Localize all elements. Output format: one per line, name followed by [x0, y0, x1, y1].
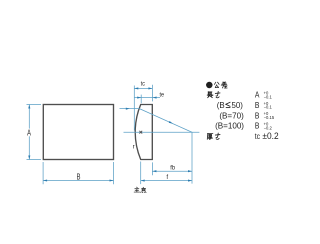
- svg-text:(B=100): (B=100): [215, 120, 244, 130]
- svg-text:−0.1: −0.1: [264, 94, 273, 99]
- svg-text:tc: tc: [255, 131, 260, 141]
- svg-text:±0.2: ±0.2: [262, 131, 278, 141]
- svg-text:A: A: [255, 90, 260, 100]
- svg-text:(B=70): (B=70): [219, 110, 244, 120]
- svg-text:B: B: [255, 121, 260, 131]
- svg-text:−0.1: −0.1: [264, 105, 273, 110]
- svg-text:f: f: [166, 174, 168, 181]
- svg-text:50): 50): [232, 101, 244, 110]
- svg-text:A: A: [27, 130, 31, 138]
- svg-text:B: B: [255, 111, 260, 121]
- svg-text:tc: tc: [141, 81, 145, 87]
- svg-text:−0.15: −0.15: [264, 115, 275, 120]
- svg-text:−0.2: −0.2: [264, 125, 273, 130]
- svg-text:B: B: [77, 174, 81, 182]
- svg-text:B: B: [255, 100, 260, 110]
- svg-text:fb: fb: [170, 165, 175, 171]
- svg-text:(B: (B: [217, 101, 225, 110]
- svg-text:te: te: [160, 92, 165, 98]
